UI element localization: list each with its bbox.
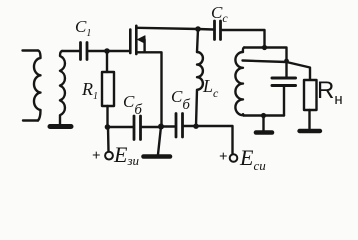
node: Lc bottom junction [193,124,198,129]
wire: bottom rail segment Cb1 to source node [142,126,161,128]
transformer T1 primary winding (left coil) [34,51,41,121]
node: source / ground junction [158,124,164,130]
node: gate junction [104,48,110,54]
wire: Rn bottom lead [308,110,310,129]
ground: below T1 secondary [50,124,71,129]
wire: VT1 drain lead / top rail [138,28,214,30]
label R1 [82,80,98,102]
ground: source bypass [144,154,171,159]
node: tank ground junction [261,113,266,118]
wire: input top lead (left terminal) [23,49,39,51]
terminal: Ezi (open circle) [105,152,113,160]
wire: Ezi terminal lead [107,127,110,151]
wire: bottom rail segment R1 to Cb1 [108,126,134,128]
inductor Lc [196,52,203,126]
inductor L2 (tank coil) [235,48,244,116]
resistor R1 body [102,72,114,106]
wire: VT1 substrate lead [143,40,145,52]
capacitor Cb2 left plate [175,114,178,138]
label +Esi [219,150,228,165]
label Lc [203,77,218,99]
node: R1 / Ezi junction [105,124,111,130]
capacitor Cb2 right plate [181,114,184,138]
transistor VT1 substrate arrow [138,36,145,43]
wire: tank tap rail to Rn [243,61,311,80]
wire: R1 bottom lead [106,106,108,127]
wire: middle ground stem [158,127,161,155]
wire: bottom rail segment Cb2 to Esi corner [184,126,233,154]
wire: gate lead to VT1 [107,50,130,52]
wire: C1 to gate node [89,50,106,52]
capacitor C2 top plate [272,77,296,80]
wire: tank bottom rail [244,114,285,116]
capacitor C1 right plate [86,43,89,60]
label Cb1 [123,93,142,118]
wire: tank ground stem [262,116,264,131]
transformer T1 secondary winding (right coil) [60,51,65,125]
wire: bottom rail segment source node to Cb2 [161,125,175,127]
wire: R1 top lead [106,51,108,72]
label Cb2 [171,88,190,113]
label C1 [75,18,91,39]
capacitor Cb1 left plate [133,116,136,140]
terminal: Esi (open circle) [230,154,238,162]
node: Cc / tank top junction [262,45,267,50]
wire: VT1 source lead [138,52,162,126]
wire: Lc feed from top rail [197,29,198,52]
wire: tank capacitor top lead [285,61,287,77]
wire: input bottom lead (left terminal) [23,119,38,121]
wire: Cc to tank circuit [222,30,265,48]
wire: tank capacitor bottom lead [283,87,285,116]
capacitor Cb1 right plate [139,116,142,140]
ground: tank circuit [256,130,272,135]
transistor VT1 gate electrode [129,30,132,54]
node: drain junction (top rail / Lc) [195,26,201,32]
capacitor Cc right plate [219,21,222,40]
capacitor Cc left plate [213,21,216,40]
resistor Rn body [304,80,317,110]
label Rn [317,79,343,107]
capacitor C2 bottom plate [272,84,296,87]
label Cc [211,4,228,24]
node: tank cap top junction [284,59,289,64]
wire: tank top rail [244,48,287,61]
capacitor C1 left plate [79,43,82,60]
ground: below Rn [300,129,321,133]
transistor VT1 channel [135,26,138,54]
wire: T1 secondary top to C1 [62,50,79,52]
label +Ezi [92,149,101,164]
